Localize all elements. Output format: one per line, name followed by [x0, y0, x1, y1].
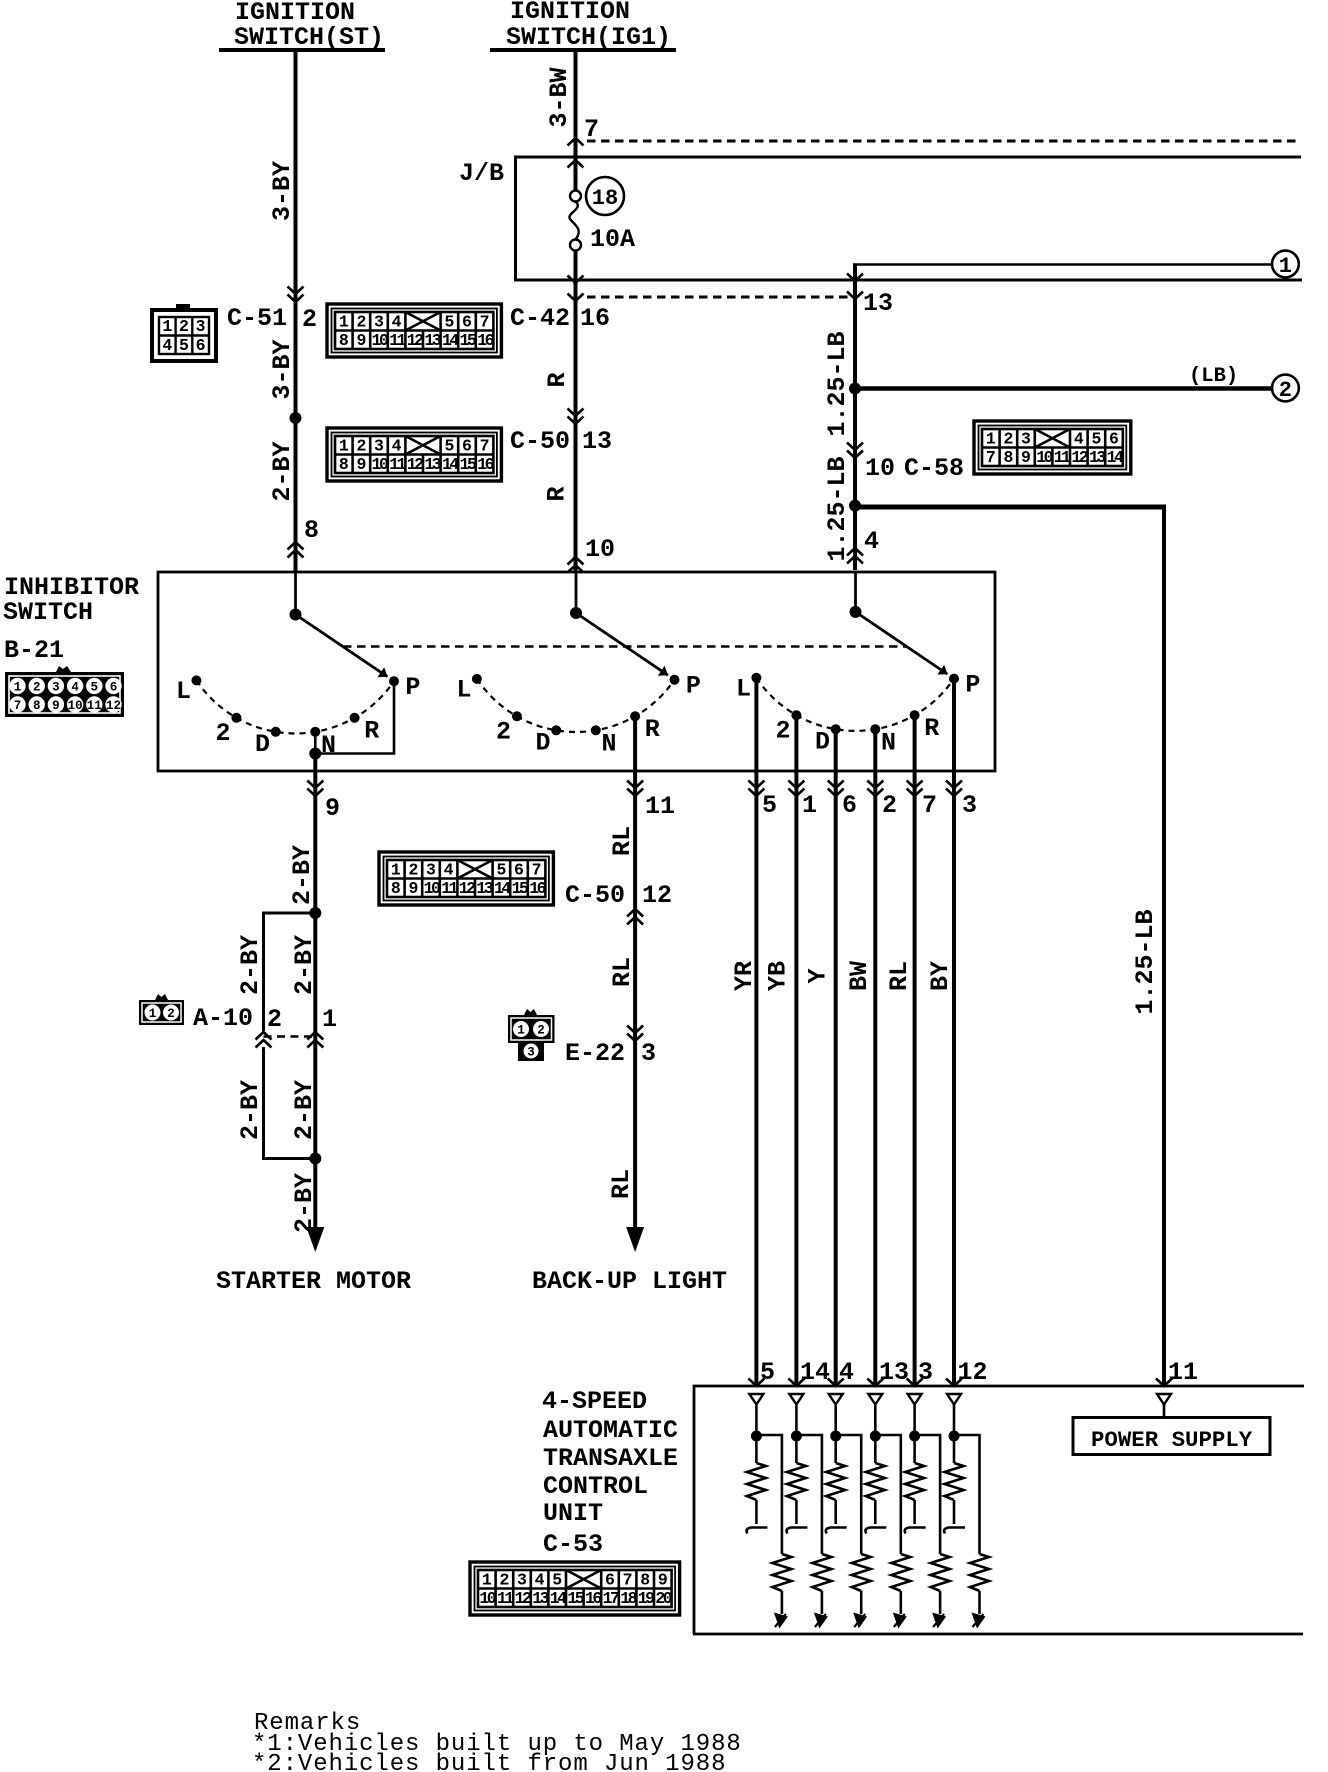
- svg-text:16: 16: [477, 331, 493, 350]
- control unit box C-53: [693, 1386, 1304, 1634]
- svg-text:16: 16: [585, 1589, 601, 1608]
- arrow leaving inhibitor switch pin 2: [867, 781, 883, 797]
- connector C-50 second body: [379, 852, 553, 905]
- coil return hook: [747, 1528, 768, 1534]
- svg-text:7: 7: [14, 699, 22, 713]
- svg-text:5: 5: [762, 791, 777, 820]
- svg-text:RL: RL: [607, 1169, 636, 1199]
- svg-text:N: N: [881, 728, 896, 757]
- svg-text:5: 5: [552, 1571, 562, 1590]
- svg-text:11: 11: [497, 1589, 514, 1608]
- output arrow: [972, 1613, 986, 1629]
- svg-text:14: 14: [442, 455, 459, 474]
- arrow leaving inhibitor switch pin 6: [828, 781, 844, 797]
- svg-text:8: 8: [391, 879, 401, 898]
- connector pass-through arrow C-50 pin 13: [568, 409, 584, 425]
- svg-text:6: 6: [462, 437, 472, 456]
- junction dot: [870, 1431, 881, 1442]
- svg-text:P: P: [405, 673, 420, 702]
- svg-text:3: 3: [962, 791, 977, 820]
- arrow entering inhibitor switch pin 4: [847, 548, 863, 564]
- inhibitor switch pole 1 feed wire: [294, 572, 297, 615]
- svg-text:2: 2: [496, 718, 511, 747]
- pin triangle: [749, 1394, 763, 1405]
- svg-text:19: 19: [638, 1589, 654, 1608]
- output arrow: [853, 1613, 867, 1629]
- wire 2-BY starter motor: [313, 754, 317, 1229]
- wire (LB) to off-page connector 2: [855, 386, 1272, 391]
- resistor lower: [931, 1554, 950, 1591]
- svg-text:10: 10: [1036, 448, 1052, 467]
- svg-text:15: 15: [460, 455, 477, 474]
- svg-text:4: 4: [839, 1358, 854, 1387]
- contact arc pole 3: [756, 678, 954, 731]
- contact arc pole 2: [477, 679, 675, 732]
- svg-text:1: 1: [339, 313, 349, 332]
- junction dot starter branch top: [309, 907, 321, 919]
- svg-text:5: 5: [91, 681, 99, 695]
- svg-text:9: 9: [658, 1571, 668, 1590]
- svg-text:N: N: [321, 731, 336, 760]
- svg-text:C-50: C-50: [565, 881, 625, 910]
- svg-text:6: 6: [196, 336, 206, 355]
- svg-text:1.25-LB: 1.25-LB: [823, 456, 852, 561]
- svg-text:P: P: [686, 672, 701, 701]
- svg-text:2-BY: 2-BY: [290, 1080, 319, 1140]
- svg-text:11: 11: [389, 331, 406, 350]
- connector A-10 tab: [155, 994, 168, 1000]
- arrow entering inhibitor switch pin 8: [288, 542, 304, 558]
- contact 2 pole 3: [791, 710, 801, 720]
- wire BY from inhibitor pole 3 contact to control unit: [952, 679, 956, 1386]
- svg-text:P: P: [965, 670, 980, 699]
- pin triangle: [908, 1394, 922, 1405]
- svg-text:*2:Vehicles built from Jun 198: *2:Vehicles built from Jun 1988: [252, 1751, 726, 1772]
- connector C-58 body: [974, 421, 1131, 474]
- svg-text:13: 13: [424, 331, 441, 350]
- svg-text:4: 4: [71, 681, 79, 695]
- wire RL back-up light: [633, 716, 637, 1228]
- connector A-10 arrows: [256, 1032, 272, 1048]
- svg-text:15: 15: [567, 1589, 584, 1608]
- svg-text:14: 14: [494, 879, 511, 898]
- coil return hook: [787, 1528, 808, 1534]
- junction dot power supply branch: [849, 500, 861, 512]
- svg-text:14: 14: [1107, 448, 1124, 467]
- svg-text:RL: RL: [608, 826, 637, 856]
- svg-text:L: L: [176, 677, 191, 706]
- dashed link at A-10: [264, 1035, 317, 1038]
- arrow leaving inhibitor switch pin 9: [307, 781, 323, 797]
- svg-text:(LB): (LB): [1189, 365, 1238, 388]
- resistor upper: [834, 1436, 837, 1463]
- svg-text:D: D: [255, 730, 270, 759]
- svg-text:12: 12: [106, 699, 121, 713]
- svg-text:1: 1: [162, 317, 172, 336]
- svg-text:C-50: C-50: [510, 427, 570, 456]
- pivot dot pole 1: [290, 609, 302, 621]
- svg-text:6: 6: [842, 791, 857, 820]
- svg-text:16: 16: [580, 304, 610, 333]
- rotor arm pole 2: [576, 613, 668, 675]
- svg-text:3: 3: [1021, 430, 1031, 449]
- svg-text:5: 5: [444, 313, 454, 332]
- contact 2 pole 1: [231, 713, 241, 723]
- arrow at dashed line: [568, 294, 584, 302]
- svg-text:YB: YB: [764, 961, 793, 991]
- svg-text:12: 12: [459, 879, 475, 898]
- fuse 18 10A symbol: [570, 191, 581, 202]
- pin triangle: [829, 1394, 843, 1405]
- svg-text:2-BY: 2-BY: [288, 845, 317, 905]
- svg-text:2-BY: 2-BY: [290, 1173, 319, 1233]
- off-page connector circle 2: [1272, 375, 1299, 402]
- svg-text:7: 7: [480, 437, 490, 456]
- svg-text:5: 5: [1091, 430, 1101, 449]
- svg-text:6: 6: [462, 313, 472, 332]
- svg-text:2: 2: [1003, 430, 1013, 449]
- svg-text:R: R: [543, 372, 572, 387]
- junction dot: [909, 1431, 920, 1442]
- svg-text:4: 4: [864, 527, 879, 556]
- circled fuse number 18: [586, 177, 624, 215]
- resistor upper: [913, 1436, 916, 1463]
- svg-text:9: 9: [408, 879, 418, 898]
- svg-text:3-BY: 3-BY: [268, 161, 297, 221]
- svg-text:1: 1: [517, 1024, 525, 1038]
- arrow at J/B box entry: [568, 160, 584, 168]
- mechanical link dashed line: [343, 645, 906, 648]
- svg-text:18: 18: [620, 1589, 637, 1608]
- junction dot: [751, 1431, 762, 1442]
- connector C-53 body: [470, 1562, 680, 1615]
- dashed line J/B to pin 13: [587, 296, 853, 299]
- svg-text:6: 6: [514, 861, 524, 880]
- pivot dot pole 3: [850, 606, 862, 618]
- contact 2 pole 2: [512, 711, 522, 721]
- svg-text:13: 13: [582, 427, 612, 456]
- svg-text:4: 4: [535, 1571, 545, 1590]
- svg-text:C-42: C-42: [510, 304, 570, 333]
- svg-text:2: 2: [356, 437, 366, 456]
- control unit input arrow at x=914.6: [907, 1379, 923, 1387]
- connector C-42 body: [327, 304, 501, 357]
- svg-text:10: 10: [372, 455, 388, 474]
- svg-text:AUTOMATIC: AUTOMATIC: [543, 1416, 678, 1445]
- coil return hook: [905, 1528, 926, 1534]
- control unit input arrow at x=756.4: [748, 1379, 764, 1387]
- contact D pole 2: [551, 725, 561, 735]
- arrow to starter motor: [306, 1227, 324, 1252]
- svg-text:5: 5: [496, 861, 506, 880]
- resistor lower: [891, 1554, 910, 1591]
- connector pass-through arrow C-51 pin 2: [288, 287, 304, 303]
- arrow leaving inhibitor switch pin 7: [907, 781, 923, 797]
- svg-text:2-BY: 2-BY: [290, 935, 319, 995]
- ignition switch (ST) terminal bar: [219, 48, 385, 52]
- inhibitor switch pole 2 feed wire: [575, 572, 578, 613]
- svg-text:3: 3: [374, 313, 384, 332]
- connector B-21: [5, 672, 124, 717]
- contact R pole 3: [910, 710, 920, 720]
- arrow to back-up light: [626, 1227, 644, 1252]
- svg-text:18: 18: [592, 186, 618, 211]
- resistor lower: [812, 1554, 831, 1591]
- svg-text:2: 2: [1279, 378, 1292, 403]
- svg-text:BW: BW: [845, 961, 874, 991]
- svg-text:14: 14: [800, 1358, 830, 1387]
- svg-text:20: 20: [655, 1589, 671, 1608]
- connector C-51 tab: [176, 304, 190, 311]
- wire BW from inhibitor pole 3 contact to control unit: [873, 729, 877, 1386]
- branch to lower resistor: [954, 1435, 980, 1554]
- svg-text:2: 2: [775, 716, 790, 745]
- branch wire to A-10 pin 2: [264, 913, 316, 1031]
- svg-text:R: R: [924, 714, 939, 743]
- svg-text:3-BW: 3-BW: [545, 67, 574, 127]
- svg-text:11: 11: [1168, 1358, 1198, 1387]
- dashed bus line top: [587, 140, 1301, 143]
- junction block J/B box: [514, 157, 1302, 280]
- svg-text:L: L: [736, 674, 751, 703]
- resistor upper: [755, 1436, 758, 1463]
- svg-text:C-51: C-51: [227, 304, 287, 333]
- connector C-50 body: [327, 428, 501, 481]
- arrow leaving inhibitor switch pin 11: [627, 781, 643, 797]
- resistor upper: [795, 1436, 798, 1463]
- svg-text:15: 15: [460, 331, 477, 350]
- contact N pole 1: [310, 727, 320, 737]
- svg-text:9: 9: [52, 699, 60, 713]
- svg-text:7: 7: [922, 791, 937, 820]
- junction dot LB branch: [849, 383, 861, 395]
- svg-text:1.25-LB: 1.25-LB: [823, 331, 852, 436]
- svg-text:10: 10: [585, 535, 615, 564]
- connector pass-through arrow C-50 pin 12: [627, 909, 643, 925]
- svg-text:10: 10: [479, 1589, 495, 1608]
- svg-text:14: 14: [442, 331, 459, 350]
- svg-text:CONTROL: CONTROL: [543, 1472, 648, 1501]
- wire 1.25-LB vertical: [853, 265, 857, 571]
- branch to lower resistor: [756, 1435, 782, 1554]
- svg-text:2: 2: [33, 681, 41, 695]
- svg-text:1: 1: [1279, 254, 1292, 279]
- branch to lower resistor: [915, 1435, 941, 1554]
- svg-text:SWITCH(ST): SWITCH(ST): [234, 23, 384, 52]
- control unit input arrow at x=875.3: [867, 1379, 883, 1387]
- svg-text:1: 1: [482, 1571, 492, 1590]
- svg-text:12: 12: [407, 331, 423, 350]
- arrow leaving J/B bottom: [847, 274, 863, 282]
- svg-text:R: R: [645, 715, 660, 744]
- ignition switch (IG1) terminal bar: [490, 48, 676, 52]
- svg-text:RL: RL: [885, 961, 914, 991]
- svg-text:2-BY: 2-BY: [236, 1080, 265, 1140]
- svg-text:11: 11: [645, 792, 675, 821]
- svg-text:6: 6: [1109, 430, 1119, 449]
- svg-text:J/B: J/B: [459, 159, 504, 188]
- svg-text:13: 13: [879, 1358, 909, 1387]
- svg-text:N: N: [601, 730, 616, 759]
- svg-text:8: 8: [1003, 448, 1013, 467]
- svg-text:B-21: B-21: [4, 636, 64, 665]
- svg-text:12: 12: [407, 455, 423, 474]
- arrow at dashed line crossing: [568, 138, 584, 146]
- branch to lower resistor: [796, 1435, 822, 1554]
- svg-text:11: 11: [441, 879, 458, 898]
- svg-text:D: D: [815, 727, 830, 756]
- output arrow: [774, 1613, 788, 1629]
- svg-text:3: 3: [426, 861, 436, 880]
- svg-text:13: 13: [532, 1589, 549, 1608]
- svg-text:4: 4: [1074, 430, 1084, 449]
- svg-text:1: 1: [339, 437, 349, 456]
- svg-text:6: 6: [110, 681, 118, 695]
- arrow at dashed line: [847, 292, 863, 300]
- svg-text:4: 4: [444, 861, 454, 880]
- resistor upper: [874, 1436, 877, 1463]
- svg-text:BY: BY: [926, 961, 955, 991]
- svg-text:1: 1: [322, 1005, 337, 1034]
- svg-text:8: 8: [304, 516, 319, 545]
- pivot dot pole 2: [570, 607, 582, 619]
- svg-text:13: 13: [1089, 448, 1106, 467]
- coil return hook: [944, 1528, 965, 1534]
- svg-text:13: 13: [424, 455, 441, 474]
- pin triangle: [947, 1394, 961, 1405]
- wire YR from inhibitor pole 3 contact to control unit: [754, 678, 758, 1386]
- svg-text:9: 9: [325, 794, 340, 823]
- svg-text:7: 7: [532, 861, 542, 880]
- contact D pole 1: [271, 727, 281, 737]
- wire branch to power supply: [855, 505, 1166, 510]
- svg-text:2: 2: [215, 719, 230, 748]
- svg-text:1: 1: [14, 681, 22, 695]
- svg-text:3: 3: [641, 1039, 656, 1068]
- branch wire below A-10: [264, 1047, 316, 1159]
- contact N pole 2: [591, 725, 601, 735]
- svg-text:10: 10: [68, 699, 83, 713]
- arrow leaving J/B bottom: [568, 276, 584, 284]
- svg-text:14: 14: [550, 1589, 567, 1608]
- svg-text:2: 2: [179, 317, 189, 336]
- contact L pole 1: [191, 675, 201, 685]
- svg-text:8: 8: [339, 455, 349, 474]
- junction dot: [949, 1431, 960, 1442]
- rotor arm pole 1: [296, 615, 388, 677]
- resistor upper: [953, 1436, 956, 1463]
- svg-text:12: 12: [642, 881, 672, 910]
- junction dot starter branch bottom: [309, 1153, 321, 1165]
- contact P pole 3: [949, 674, 959, 684]
- svg-text:4: 4: [162, 336, 172, 355]
- svg-text:1: 1: [149, 1007, 157, 1021]
- svg-text:2: 2: [356, 313, 366, 332]
- contact D pole 3: [831, 724, 841, 734]
- svg-text:5: 5: [444, 437, 454, 456]
- svg-text:Y: Y: [804, 968, 833, 983]
- svg-text:7: 7: [623, 1571, 633, 1590]
- wire 3-BY from ignition switch ST down to inhibitor switch pin 8: [294, 50, 298, 572]
- inhibitor switch box: [158, 572, 995, 771]
- contact P pole 1: [389, 676, 399, 686]
- branch to lower resistor: [836, 1435, 862, 1554]
- output arrow: [814, 1613, 828, 1629]
- svg-text:4: 4: [392, 437, 402, 456]
- svg-text:3: 3: [527, 1046, 535, 1060]
- svg-text:8: 8: [640, 1571, 650, 1590]
- svg-text:1.25-LB: 1.25-LB: [1131, 909, 1160, 1014]
- svg-text:8: 8: [339, 331, 349, 350]
- svg-text:11: 11: [1054, 448, 1071, 467]
- svg-text:4-SPEED: 4-SPEED: [542, 1387, 647, 1416]
- svg-text:12: 12: [1071, 448, 1087, 467]
- svg-text:7: 7: [480, 313, 490, 332]
- svg-text:E-22: E-22: [565, 1039, 625, 1068]
- coil return hook: [865, 1528, 886, 1534]
- junction dot: [830, 1431, 841, 1442]
- svg-text:6: 6: [605, 1571, 615, 1590]
- svg-text:TRANSAXLE: TRANSAXLE: [543, 1444, 678, 1473]
- svg-text:YR: YR: [730, 961, 759, 991]
- svg-text:3: 3: [52, 681, 60, 695]
- inhibitor switch pole 3 feed wire: [854, 572, 857, 612]
- svg-text:1: 1: [986, 430, 996, 449]
- svg-text:SWITCH(IG1): SWITCH(IG1): [506, 23, 671, 52]
- svg-text:10: 10: [865, 454, 895, 483]
- contact arc pole 1: [196, 680, 394, 733]
- svg-text:13: 13: [863, 289, 893, 318]
- output arrow: [893, 1613, 907, 1629]
- resistor lower: [772, 1554, 791, 1591]
- svg-text:C-53: C-53: [543, 1530, 603, 1559]
- power supply pin triangle: [1157, 1394, 1171, 1405]
- svg-text:16: 16: [477, 455, 493, 474]
- svg-text:A-10: A-10: [193, 1004, 253, 1033]
- svg-text:POWER SUPPLY: POWER SUPPLY: [1091, 1427, 1253, 1453]
- wire RL from inhibitor pole 3 contact to control unit: [913, 715, 917, 1386]
- pole 1 N contact output link: [315, 681, 394, 753]
- pin triangle: [789, 1394, 803, 1405]
- svg-text:2: 2: [499, 1571, 509, 1590]
- svg-text:17: 17: [603, 1589, 619, 1608]
- svg-text:11: 11: [389, 455, 406, 474]
- wire Y from inhibitor pole 3 contact to control unit: [834, 729, 838, 1386]
- control unit input arrow at x=954.0: [946, 1379, 962, 1387]
- arrow leaving inhibitor switch pin 3: [946, 781, 962, 797]
- wire to off-page connector 1: [853, 263, 1272, 266]
- svg-text:RL: RL: [608, 957, 637, 987]
- svg-text:10: 10: [372, 331, 388, 350]
- svg-text:2: 2: [882, 791, 897, 820]
- svg-text:BACK-UP LIGHT: BACK-UP LIGHT: [532, 1267, 727, 1296]
- svg-text:3: 3: [196, 317, 206, 336]
- control unit input arrow at x=835.7: [828, 1379, 844, 1387]
- svg-text:11: 11: [87, 699, 102, 713]
- svg-text:R: R: [543, 486, 572, 501]
- svg-text:12: 12: [515, 1589, 531, 1608]
- svg-text:10: 10: [424, 879, 440, 898]
- contact N pole 3: [870, 724, 880, 734]
- contact R pole 1: [350, 713, 360, 723]
- connector E-22: [508, 1015, 555, 1043]
- svg-text:3-BY: 3-BY: [268, 339, 297, 399]
- connector C-51: [152, 310, 216, 361]
- svg-text:3: 3: [517, 1571, 527, 1590]
- wire YB from inhibitor pole 3 contact to control unit: [794, 715, 798, 1386]
- output arrow: [932, 1613, 946, 1629]
- contact L pole 2: [472, 674, 482, 684]
